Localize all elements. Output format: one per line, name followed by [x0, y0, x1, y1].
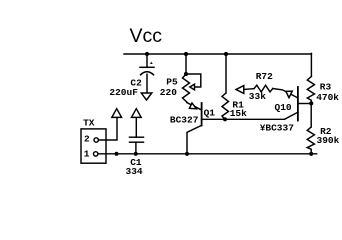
junction dot C2-Vcc: [145, 52, 149, 56]
pin 2 circle: [94, 138, 98, 142]
junction dot R1-Vcc: [224, 52, 228, 56]
wire output node to R2: [310, 103, 312, 127]
junction dot C1-ground: [134, 152, 138, 156]
antenna arrow right: [131, 109, 141, 118]
svg-text:220uF: 220uF: [109, 87, 138, 98]
svg-text:Vcc: Vcc: [130, 25, 163, 47]
svg-text:Q1: Q1: [204, 108, 216, 119]
junction dot R1-base: [223, 117, 227, 121]
pin 1 circle: [94, 152, 98, 156]
transistor Q10 BC337: [285, 87, 312, 121]
transistor Q1 BC327: [187, 103, 285, 154]
resistor R3: [307, 77, 314, 104]
junction dot R2-ground: [309, 152, 313, 156]
svg-text:¥BC337: ¥BC337: [260, 123, 295, 134]
junction dot P5-Vcc: [184, 52, 188, 56]
connector TX box: [81, 129, 106, 163]
svg-text:2: 2: [84, 134, 90, 145]
svg-text:BC327: BC327: [170, 114, 199, 125]
svg-text:R3: R3: [320, 82, 332, 93]
junction dot output node: [309, 101, 313, 105]
svg-text:R72: R72: [256, 71, 273, 82]
svg-text:Q10: Q10: [275, 102, 292, 113]
trimmer R72: [236, 85, 297, 98]
svg-text:P5: P5: [166, 76, 178, 87]
junction dot Q1 collector-ground: [185, 152, 189, 156]
svg-text:33k: 33k: [249, 91, 266, 102]
svg-text:15k: 15k: [230, 108, 247, 119]
svg-text:334: 334: [126, 166, 143, 177]
capacitor C2: [140, 54, 154, 93]
ground rail wire: [98, 153, 316, 155]
svg-text:220: 220: [160, 87, 177, 98]
resistor R1: [222, 54, 229, 119]
capacitor C1: [130, 118, 144, 154]
wire pin2 to antenna arrow: [99, 118, 117, 141]
Vcc rail wire: [124, 53, 311, 55]
svg-text:TX: TX: [83, 118, 95, 129]
junction dot ground-left: [114, 152, 118, 156]
wire R3 top lead: [310, 53, 312, 76]
resistor R2: [307, 127, 314, 154]
antenna arrow left: [112, 109, 122, 118]
svg-text:470k: 470k: [316, 92, 339, 103]
ground arrow below C2: [141, 93, 152, 100]
potentiometer P5: [183, 54, 201, 102]
svg-text:390k: 390k: [317, 135, 340, 146]
svg-text:1: 1: [84, 148, 90, 159]
